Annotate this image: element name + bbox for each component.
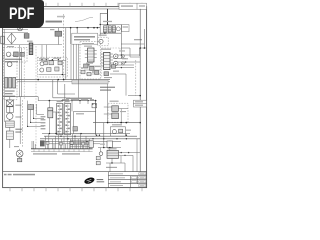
- dashed box input filter: [3, 47, 27, 62]
- resistor R1: [24, 34, 29, 39]
- zone tick marks bottom margin: [10, 188, 142, 192]
- value label U1: [101, 49, 111, 50]
- wire snubber box rails: [39, 60, 67, 74]
- varistor RV1: [7, 62, 12, 67]
- tiny part t1: [46, 142, 49, 145]
- fuse F2 box: [6, 100, 13, 106]
- CN2 pin squares: [57, 105, 61, 132]
- wire nested L routes: [28, 101, 44, 127]
- notes text line: [4, 174, 35, 176]
- wire right vertical bus V+: [139, 9, 141, 172]
- connector CN3: [65, 103, 71, 134]
- terminal labels below: [33, 153, 80, 154]
- capacitor C2: [14, 52, 19, 57]
- ferrite bead FB1: [116, 27, 120, 31]
- zone tick marks top margin: [10, 3, 142, 7]
- capacitor C22: [119, 129, 123, 133]
- connector CN2: [57, 103, 63, 134]
- label right of transformer: [134, 39, 142, 40]
- tiny part t3: [70, 142, 73, 145]
- junction dots output filter: [96, 135, 127, 136]
- CN3 pin squares: [65, 105, 69, 132]
- value label CN2 CN3: [57, 101, 70, 102]
- pin header P1 hatched bar: [72, 80, 108, 84]
- wire HV DC bus: [3, 27, 100, 29]
- value label snubber2: [39, 58, 61, 60]
- wire bottom bus 1: [42, 133, 130, 135]
- labels mid-left column: [41, 116, 46, 129]
- transformer T1 secondary winding: [108, 26, 111, 33]
- wire gate drive verticals: [71, 44, 79, 100]
- value label M1: [14, 146, 19, 147]
- filter labels: [5, 90, 16, 97]
- value label opto: [119, 50, 128, 59]
- label row mid band: [62, 99, 94, 100]
- junction dots SW1: [121, 152, 130, 156]
- choke L1 winding b: [9, 77, 12, 88]
- heatsink block outline: [74, 111, 96, 133]
- dense label block terminal: [40, 140, 45, 146]
- value label heatsink: [76, 113, 84, 114]
- wire vertical mid pair: [19, 97, 21, 144]
- terminal strip bus line: [31, 148, 93, 150]
- capacitor C5: [49, 61, 54, 65]
- label block aux text: [100, 87, 115, 91]
- wire staircase left: [3, 80, 96, 104]
- value label mid cluster: [86, 63, 119, 79]
- aux winding L2: [99, 39, 103, 43]
- label TP POWER: [46, 16, 66, 23]
- wire LV bus: [16, 79, 110, 81]
- junction dots heatsink row: [92, 103, 96, 104]
- opto coupler PC2: [121, 55, 124, 65]
- wire bottom bus 4: [44, 140, 121, 142]
- wire bottom bus 5: [48, 143, 100, 145]
- transformer T1 aux winding: [112, 26, 115, 33]
- U1 pin stubs: [101, 54, 113, 66]
- resistor R2: [20, 52, 24, 56]
- title block cell boxes: [132, 173, 146, 187]
- value label relay: [100, 144, 105, 145]
- ladder stack right of strip: [70, 141, 89, 147]
- diode D8: [112, 130, 116, 134]
- wire AC line: [3, 30, 62, 60]
- value label R3: [50, 29, 54, 30]
- dashed vertical mid-left: [35, 46, 37, 148]
- PDF badge overlay: [0, 0, 44, 28]
- resistor R3 startup: [55, 31, 62, 36]
- bridge rectifier BD1: [7, 33, 16, 44]
- wire left vertical pair: [20, 45, 22, 97]
- value label output filter: [112, 124, 131, 131]
- junction dots transformer: [100, 24, 109, 34]
- value label U2: [82, 43, 94, 47]
- wire bottom risers: [125, 139, 137, 172]
- resistor R21: [28, 105, 33, 110]
- thermistor NTC1: [6, 52, 11, 57]
- dashed vertical isolation line: [63, 14, 65, 80]
- dashed box EMI filter column: [3, 55, 17, 100]
- transistor Q2: [48, 108, 53, 118]
- resistor R12: [90, 66, 94, 70]
- junction dots snubber box: [41, 59, 63, 75]
- IC U1 PWM controller: [104, 52, 110, 69]
- label above title block: [106, 167, 117, 168]
- dashed box aux winding: [98, 37, 108, 46]
- junction dots right bus: [139, 47, 145, 123]
- wire right vertical bus return: [140, 29, 145, 56]
- small box right of labels: [92, 104, 97, 108]
- title block table outline: [108, 172, 146, 188]
- resistor R6: [47, 68, 51, 72]
- junction dots bottom buses: [49, 133, 127, 142]
- wire left edge vertical: [4, 29, 6, 122]
- label bottom-left: [15, 129, 22, 133]
- wire drop right of CN3: [72, 101, 96, 112]
- dashed box aux control right: [108, 103, 128, 122]
- snubber block box: [122, 25, 129, 32]
- junction dots right cluster: [121, 54, 127, 68]
- value label U3 U4: [110, 101, 126, 113]
- wire R3 stem: [57, 28, 59, 45]
- wire SW1 to bus: [106, 153, 140, 163]
- regulator U4: [112, 113, 119, 119]
- dashed box secondary feedback: [80, 42, 101, 79]
- resistor R13: [104, 72, 109, 76]
- connector CON5 right edge: [134, 100, 147, 107]
- junction dots under U2: [81, 64, 93, 72]
- junction dots mid wire: [49, 100, 97, 102]
- wire bottom bus 2: [44, 135, 137, 137]
- label row above dashed bus: [66, 98, 92, 100]
- capacitor C6: [44, 61, 48, 64]
- diode D5: [40, 62, 44, 66]
- value label aux: [99, 35, 107, 36]
- wire bottom-left vertical drop: [9, 97, 11, 148]
- wire M1 stems: [19, 149, 21, 161]
- tiny part t2: [59, 142, 62, 145]
- PWM control block box: [72, 33, 98, 44]
- wire U2 cluster rails: [84, 66, 100, 74]
- junction dots bottom right: [103, 147, 113, 164]
- junction dots LV bus: [37, 79, 64, 81]
- wire outputs to right bus: [110, 55, 140, 74]
- wire vertical x103.8: [96, 101, 104, 148]
- capacitor C12: [95, 71, 99, 75]
- dashed vertical divider left: [22, 100, 24, 148]
- dashed vertical left inner: [23, 48, 25, 100]
- junction dots L routes: [27, 118, 34, 127]
- resistor R14: [111, 65, 115, 69]
- dashed vertical right: [135, 60, 137, 96]
- connector CN4: [89, 141, 93, 148]
- resistor R20: [6, 121, 15, 127]
- regulator U3: [112, 106, 119, 112]
- dashed box snubber secondary: [37, 57, 67, 77]
- top horizontal rail wire: [3, 8, 146, 10]
- diode D9: [99, 152, 103, 156]
- dashed box U1 cluster: [102, 48, 120, 78]
- wire mid bus y122: [93, 122, 140, 124]
- value labels input section: [5, 59, 22, 63]
- junction dots bus y122: [107, 122, 127, 124]
- wire transformer feed: [100, 13, 121, 58]
- opto coupler PC1: [114, 54, 118, 66]
- Fairchild logo oval: [84, 176, 96, 185]
- wire Q2 stem: [49, 101, 56, 134]
- capacitor C20: [6, 131, 13, 139]
- relay RL1 box: [107, 141, 113, 147]
- wire relay stem: [98, 147, 121, 158]
- capacitor C24: [17, 158, 21, 161]
- resistor R15: [87, 72, 91, 75]
- diode D6: [40, 68, 44, 72]
- drawing frame: [3, 7, 147, 188]
- capacitor C13: [81, 70, 85, 74]
- value label SW1: [108, 148, 117, 149]
- choke L1 winding a: [5, 77, 8, 88]
- junction dots on HV bus: [70, 27, 98, 29]
- title block separator line: [3, 171, 147, 173]
- value label C1: [27, 41, 33, 42]
- capacitor CX1: [13, 77, 16, 88]
- lamp LP1: [7, 113, 13, 119]
- title block text smudges: [110, 173, 144, 186]
- spark gap SG1: [6, 107, 13, 113]
- resistor R8: [58, 61, 62, 65]
- PWM block label: [74, 36, 95, 40]
- label SG1: [15, 105, 21, 118]
- wire between ladders: [63, 103, 65, 134]
- tiny part t4: [82, 142, 85, 145]
- U2 pin stubs: [85, 51, 97, 58]
- capacitor C1 bulk electrolytic: [29, 43, 33, 55]
- leader squiggle label: [75, 17, 93, 21]
- value label T1: [103, 21, 112, 22]
- wire right bus links: [121, 44, 147, 104]
- resistor R23: [73, 127, 77, 131]
- wire vertical bus B: [66, 28, 77, 80]
- revision text: [121, 5, 145, 7]
- box output filter: [110, 127, 125, 136]
- IC U2 error amp: [88, 48, 94, 62]
- revision block top right: [119, 3, 147, 9]
- resistor R11: [84, 64, 88, 68]
- wire drain riser: [107, 9, 109, 25]
- resistor R30: [96, 156, 100, 159]
- resistor R7: [55, 67, 59, 71]
- wire right mid links: [121, 48, 130, 96]
- wire riser to title block: [109, 163, 111, 172]
- Fairchild wordmark: [97, 179, 105, 182]
- terminal strip lower ticks: [34, 149, 89, 152]
- terminal strip lower edge: [31, 151, 93, 153]
- switch SW1 box: [107, 150, 118, 158]
- wire bottom bus 3: [40, 138, 140, 140]
- CON5 labels: [135, 101, 143, 106]
- wire aux control feeds: [104, 84, 128, 123]
- value label bridge: [7, 46, 14, 47]
- fuse F1: [17, 25, 23, 31]
- terminal strip drops: [32, 134, 89, 149]
- wire LV bus return: [17, 81, 110, 83]
- motor M1: [16, 150, 23, 157]
- connector CON1: [1, 36, 4, 44]
- transformer T1 primary winding: [103, 26, 107, 33]
- resistor R31: [96, 161, 100, 164]
- snubber label: [123, 26, 128, 27]
